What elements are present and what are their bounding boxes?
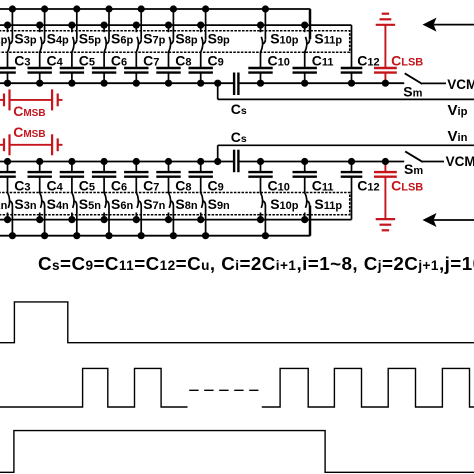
capacitor C11 (top half) bbox=[293, 68, 317, 73]
junction dots on bottom rail 2 bbox=[4, 216, 11, 223]
switch S4p bbox=[39, 25, 41, 32]
switch Sm (top half) bbox=[405, 73, 423, 84]
switch S9n bbox=[200, 213, 202, 220]
capacitor C5 (top half) bbox=[60, 68, 84, 73]
switch S9p bbox=[200, 25, 202, 32]
arrow pointing left (bottom right) bbox=[423, 213, 437, 227]
switch S7p bbox=[135, 25, 137, 32]
switch S7n bbox=[135, 213, 137, 220]
capacitor C9 (bottom half) bbox=[189, 172, 213, 177]
switch S3n bbox=[7, 213, 9, 220]
capacitor C9 (top half) bbox=[189, 68, 213, 73]
capacitor C12 (bottom half) bbox=[341, 172, 363, 177]
bridge capacitor Cs (top half) bbox=[234, 73, 238, 96]
waveform 2: ellipsis dashes bbox=[189, 389, 258, 391]
wire: bottom reference rail 1 (bottom-most rail) bbox=[0, 235, 310, 237]
ground symbol (inverted, above CLSB, top half) bbox=[376, 14, 395, 25]
switch S5p bbox=[71, 25, 73, 32]
capacitor CMSB (upper, red) bbox=[0, 99, 4, 101]
ground symbol (below CLSB, bottom half) bbox=[376, 219, 395, 230]
capacitor CMSB (lower, red) bbox=[0, 144, 4, 146]
wire: bottom reference rail 2 bbox=[0, 219, 352, 221]
switch S6p bbox=[103, 25, 105, 32]
capacitor CLSB (top half) bbox=[374, 68, 397, 73]
capacitor C6 (top half) bbox=[92, 68, 116, 73]
waveform 2: bit-cycling clock pulses (right group) bbox=[262, 368, 474, 407]
capacitor C8 (top half) bbox=[156, 68, 180, 73]
switch S8n bbox=[168, 213, 170, 220]
junction dots on top-plate rail (bottom half) bbox=[4, 158, 11, 165]
wire: common top-plate rail (bottom half) bbox=[0, 161, 234, 163]
switch S6n bbox=[103, 213, 105, 220]
junction dots on top rail 1 bbox=[9, 5, 16, 12]
capacitor CLSB (bottom half) bbox=[374, 172, 397, 177]
junction dots on bottom rail 1 bbox=[9, 232, 16, 239]
switch S11p bbox=[304, 25, 306, 32]
capacitor C7 (top half) bbox=[124, 68, 148, 73]
capacitor C6 (bottom half) bbox=[92, 172, 116, 177]
arrow pointing left (top right) bbox=[423, 18, 437, 32]
capacitor C3 (bottom half) bbox=[0, 172, 16, 177]
capacitor C4 (top half) bbox=[28, 68, 52, 73]
switch S10p (bottom half) bbox=[260, 213, 262, 220]
capacitor C3 (top half) bbox=[0, 68, 16, 73]
junction dots on top rail 2 bbox=[4, 22, 11, 29]
dashed switch-bank box (bottom half) bbox=[0, 193, 350, 215]
switch S3p bbox=[7, 25, 9, 32]
switch S11p (bottom half) bbox=[304, 213, 306, 220]
capacitor C8 (bottom half) bbox=[156, 172, 180, 177]
capacitor C11 (bottom half) bbox=[293, 172, 317, 177]
switch Sm (bottom half) bbox=[405, 151, 423, 162]
wire CLSB to ground (top half) bbox=[384, 25, 386, 68]
waveform 3: conversion-phase gate bbox=[0, 431, 474, 473]
waveform 1: sampling pulse bbox=[0, 302, 474, 343]
wire CLSB to ground (bottom half) bbox=[384, 177, 386, 220]
waveform 2: bit-cycling clock pulses (left group) bbox=[0, 368, 188, 407]
switch S4n bbox=[39, 213, 41, 220]
wire: top reference rail 1 (VREF rail, top half) bbox=[0, 8, 310, 10]
switch S5n bbox=[71, 213, 73, 220]
switch S10p bbox=[260, 25, 262, 32]
capacitor C10 (bottom half) bbox=[248, 172, 272, 177]
capacitor C12 (top half) bbox=[341, 68, 363, 73]
svg-text:Cs=C9=C11=C12=Cu, Ci=2Ci+1,i=1: Cs=C9=C11=C12=Cu, Ci=2Ci+1,i=1~8, Cj=2Cj… bbox=[38, 253, 474, 274]
wire: top reference rail 2 (second rail, top half) bbox=[0, 24, 352, 26]
bridge capacitor Cs (bottom half) bbox=[234, 150, 238, 173]
dashed switch-bank box (top half) bbox=[0, 31, 350, 53]
capacitor C7 (bottom half) bbox=[124, 172, 148, 177]
wire: common top-plate rail (top half) bbox=[0, 82, 234, 84]
switch S8p bbox=[168, 25, 170, 32]
svg-text:VCM: VCM bbox=[447, 77, 474, 92]
wire: Vin line and rise (bottom half) bbox=[217, 145, 219, 161]
junction dots on top-plate rail (top half) bbox=[4, 80, 11, 87]
capacitor C4 (bottom half) bbox=[28, 172, 52, 177]
svg-text:VCM: VCM bbox=[446, 154, 474, 169]
capacitor C5 (bottom half) bbox=[60, 172, 84, 177]
wire: Vip line and drop (top half) bbox=[217, 83, 219, 99]
capacitor C10 (top half) bbox=[248, 68, 272, 73]
